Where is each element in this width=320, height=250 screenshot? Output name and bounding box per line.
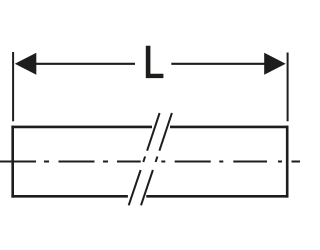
rod outline left edge (11, 126, 14, 198)
extension line right (287, 53, 289, 122)
dimension label L (146, 46, 164, 78)
dimension line right segment (171, 63, 270, 65)
break line 2 upper segment (159, 113, 172, 151)
rod outline top edge (broken at break mark) (11, 126, 288, 129)
dimension line left segment (30, 63, 135, 65)
break line 1 upper segment (147, 113, 160, 151)
rod outline right edge (286, 126, 289, 198)
arrowhead right (264, 53, 286, 75)
centerline (dash-dot axis) (0, 161, 300, 163)
break line 2 lower segment (141, 170, 153, 205)
arrowhead left (15, 53, 37, 75)
break line 1 lower segment (129, 170, 141, 205)
rod outline bottom edge (broken at break mark) (11, 195, 288, 198)
break line 1 middle tick (143, 157, 145, 163)
break line 2 middle tick (156, 157, 158, 163)
extension line left (12, 52, 14, 121)
